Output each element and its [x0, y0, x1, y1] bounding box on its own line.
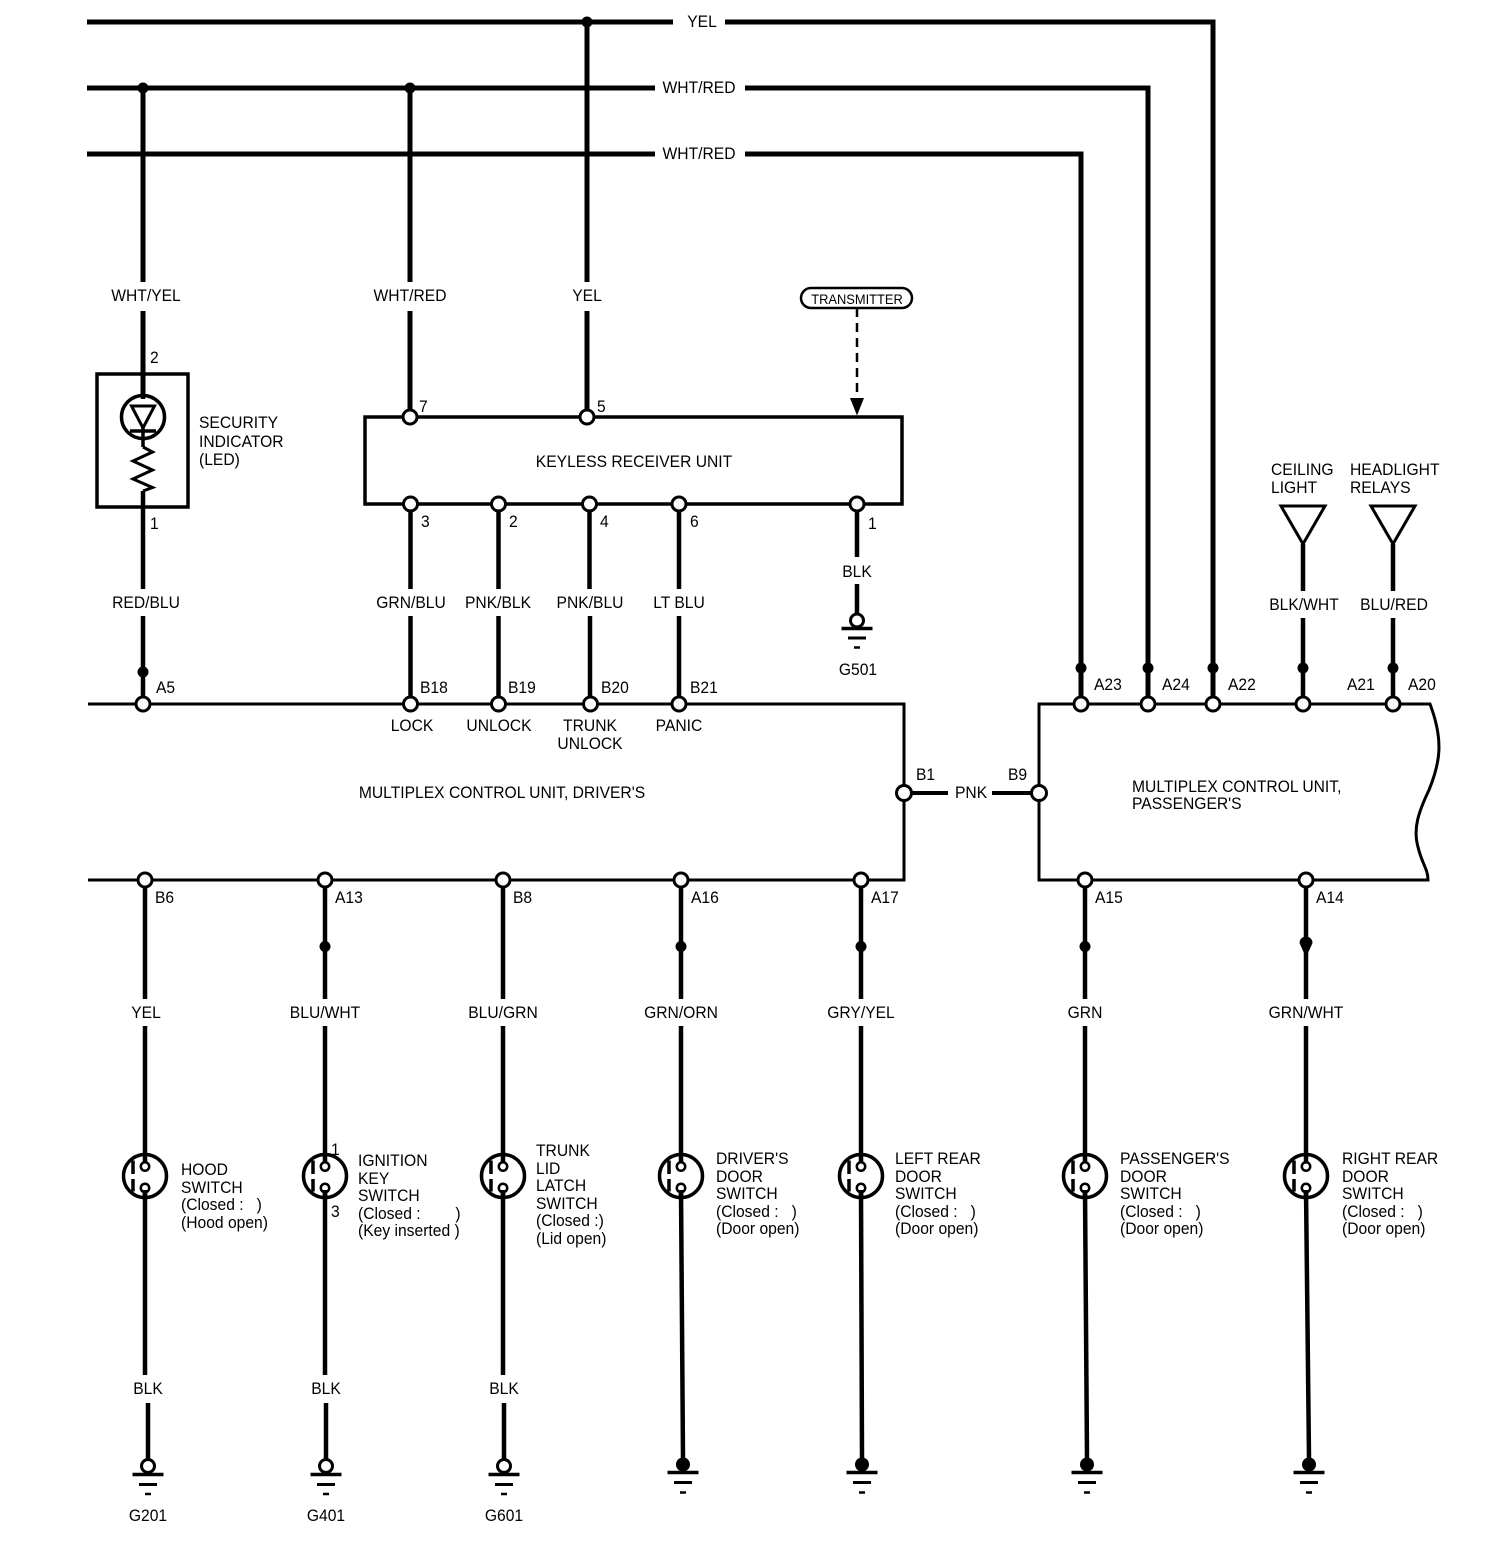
ceiling light antenna-triangle symbol — [1281, 506, 1325, 704]
pin label 1 (keyless grnd) — [868, 515, 877, 533]
ground symbol (filled dot) below A17 — [847, 1458, 878, 1493]
wire keyless pin2 to B19 — [496, 504, 501, 704]
terminal A17 — [854, 873, 868, 887]
switch symbol at column A16 — [660, 1153, 703, 1199]
function label TRUNK UNLOCK — [557, 717, 622, 752]
terminal label A21 — [1347, 676, 1375, 694]
wire label PNK — [955, 784, 987, 802]
wire A17 switch to ground — [861, 1190, 862, 1458]
junction dot on wire A16 — [676, 941, 687, 952]
label IGNITION KEY SWITCH — [358, 1152, 461, 1240]
switch symbol at column A15 — [1064, 1153, 1107, 1199]
ground label G401 — [307, 1507, 345, 1525]
wire label GRN/ORN — [644, 1004, 718, 1022]
label PASSENGER'S DOOR SWITCH — [1120, 1150, 1230, 1238]
security indicator (LED) component box — [97, 374, 188, 507]
junction dot on wire A13 — [320, 941, 331, 952]
pin label 1 (ignition) — [331, 1141, 340, 1159]
wire A15 from control unit to switch — [1083, 880, 1088, 1163]
terminal label B21 — [690, 679, 718, 697]
wire drop A23 from WHT/RED bus x=1081 — [1079, 152, 1084, 705]
wire label BLK (hood gnd) — [133, 1380, 163, 1398]
ground G501 — [842, 614, 873, 648]
wire label PNK/BLU — [557, 594, 624, 612]
junction dot at WHT/RED bus x=410 — [405, 83, 416, 94]
terminal B20 — [584, 697, 598, 711]
terminal A16 — [674, 873, 688, 887]
dashed RF link from transmitter — [850, 308, 864, 416]
terminal label B20 — [601, 679, 629, 697]
pin label 6 — [690, 513, 699, 531]
terminal pin 6 keyless bottom — [672, 497, 686, 511]
terminal label A20 — [1408, 676, 1436, 694]
wire B6 from control unit to switch — [143, 880, 148, 1163]
terminal label A17 — [871, 889, 899, 907]
wire A16 switch to ground — [681, 1190, 683, 1458]
wire WHT/RED drop to keyless pin7 x=410 — [408, 88, 413, 417]
terminal label A22 — [1228, 676, 1256, 694]
multiplex control unit driver's box U3 — [88, 704, 904, 880]
multiplex control unit passenger's box U4 (torn right edge) — [1039, 704, 1439, 880]
wire WHT/YEL drop to security indicator x=143 — [141, 88, 146, 397]
resistor inside security indicator — [133, 447, 153, 491]
junction dot on wire A15 — [1080, 941, 1091, 952]
terminal label A24 — [1162, 676, 1190, 694]
terminal A23 — [1074, 697, 1088, 711]
terminal pin 1 keyless bottom — [850, 497, 864, 511]
terminal pin 3 keyless bottom — [404, 497, 418, 511]
junction dot on A24 wire — [1143, 663, 1154, 674]
headlight relays antenna-triangle symbol — [1371, 506, 1415, 704]
junction-arrow dot on BLU/RED wire A20 — [1388, 663, 1399, 674]
wire B8 from control unit to switch — [501, 880, 506, 1163]
label TRANSMITTER — [811, 292, 903, 306]
label LEFT REAR DOOR SWITCH — [895, 1150, 981, 1238]
terminal label B19 — [508, 679, 536, 697]
terminal label B6 — [155, 889, 174, 907]
wire keyless pin4 to B20 — [587, 504, 592, 704]
switch symbol at column B8 — [482, 1153, 525, 1199]
terminal label A16 — [691, 889, 719, 907]
wire A14 switch to ground — [1306, 1190, 1309, 1458]
wire label GRN/WHT — [1269, 1004, 1344, 1022]
wire label BLK (ignition gnd) — [311, 1380, 341, 1398]
wire RED/BLU from LED to A5 x=143 — [141, 491, 146, 704]
wire label BLK (trunk gnd) — [489, 1380, 519, 1398]
ground symbol (filled dot) below A15 — [1072, 1458, 1103, 1493]
wire label GRN — [1068, 1004, 1103, 1022]
keyless receiver unit box U2 — [365, 417, 902, 504]
junction dot above A5 — [138, 667, 149, 678]
wire WHT/RED bus y=154 — [87, 152, 1079, 157]
wire PNK between B1 and B9 — [911, 791, 1032, 795]
terminal A22 — [1206, 697, 1220, 711]
label RIGHT REAR DOOR SWITCH — [1342, 1150, 1438, 1238]
pin label 3 — [421, 513, 430, 531]
wire YEL drop to keyless pin5 x=587 — [585, 22, 590, 417]
wire drop A24 from WHT/RED bus x=1148 — [1146, 86, 1151, 705]
wire label YEL (hood) — [131, 1004, 161, 1022]
ground label G601 — [485, 1507, 523, 1525]
wire A16 from control unit to switch — [679, 880, 684, 1163]
label CEILING LIGHT — [1271, 461, 1334, 496]
terminal A13 — [318, 873, 332, 887]
pin label 4 — [600, 513, 609, 531]
junction dot at WHT/RED bus x=143 — [138, 83, 149, 94]
ground symbol (open terminal) below A13 — [311, 1460, 342, 1495]
terminal label A14 — [1316, 889, 1344, 907]
terminal pin 2 keyless bottom — [492, 497, 506, 511]
terminal label A23 — [1094, 676, 1122, 694]
terminal A20 — [1386, 697, 1400, 711]
LED circle U-sec — [122, 374, 165, 447]
ground symbol (filled dot) below A16 — [668, 1458, 699, 1493]
label MULTIPLEX CONTROL UNIT, PASSENGER'S — [1132, 778, 1341, 812]
wire label BLU/RED — [1360, 596, 1428, 614]
switch symbol at column A14 — [1285, 1153, 1328, 1199]
wire label RED/BLU — [112, 594, 180, 612]
wire A13 switch to ground — [325, 1190, 326, 1459]
junction dot on A23 wire — [1076, 663, 1087, 674]
label HOOD SWITCH — [181, 1161, 268, 1231]
label KEYLESS RECEIVER UNIT — [536, 453, 732, 471]
junction dot on wire A17 — [856, 941, 867, 952]
pin label 7 — [419, 398, 428, 416]
ground symbol (filled dot) below A14 — [1294, 1458, 1325, 1493]
terminal B1 — [897, 786, 912, 801]
terminal B9 — [1032, 786, 1047, 801]
pin label 1 (LED bottom) — [150, 515, 159, 533]
wire A17 from control unit to switch — [859, 880, 864, 1163]
junction dot at YEL bus x=587 — [582, 17, 593, 28]
terminal A24 — [1141, 697, 1155, 711]
terminal B8 — [496, 873, 510, 887]
wire label GRY/YEL — [827, 1004, 895, 1022]
pin label 2 — [509, 513, 518, 531]
function label LOCK — [391, 717, 434, 735]
wire label BLK/WHT — [1269, 596, 1339, 614]
transmitter oval — [801, 288, 912, 308]
terminal pin 7 keyless — [403, 410, 417, 424]
ground symbol (open terminal) below B6 — [133, 1460, 164, 1495]
junction dot on A22 wire — [1208, 663, 1219, 674]
label HEADLIGHT RELAYS — [1350, 461, 1440, 496]
wire label PNK/BLK — [465, 594, 531, 612]
wire A13 from control unit to switch — [323, 880, 328, 1163]
terminal label A15 — [1095, 889, 1123, 907]
net label WHT/RED (bus 3) — [663, 145, 736, 163]
terminal label A13 — [335, 889, 363, 907]
junction-arrow dot on BLK/WHT wire A21 — [1298, 663, 1309, 674]
wire label BLU/GRN — [468, 1004, 538, 1022]
label SECURITY INDICATOR (LED) — [199, 414, 284, 470]
wire label GRN/BLU — [376, 594, 446, 612]
wire label BLK (G501) — [842, 563, 872, 581]
label TRUNK LID LATCH SWITCH — [536, 1142, 606, 1247]
net label WHT/RED (bus 2) — [663, 79, 736, 97]
terminal A15 — [1078, 873, 1092, 887]
ground label G201 — [129, 1507, 167, 1525]
terminal B6 — [138, 873, 152, 887]
wire label WHT/RED — [374, 287, 447, 305]
switch symbol at column A17 — [840, 1153, 883, 1199]
terminal label B8 — [513, 889, 532, 907]
wire WHT/RED bus y=88 — [87, 86, 1146, 91]
wire B8 switch to ground — [503, 1190, 504, 1459]
terminal A14 — [1299, 873, 1313, 887]
wire drop A22 from YEL bus x=1213 — [1211, 20, 1216, 705]
wire label LT BLU — [653, 594, 705, 612]
switch symbol at column A13 — [304, 1153, 347, 1199]
terminal label B9 — [1008, 766, 1027, 784]
terminal label B1 — [916, 766, 935, 784]
terminal label B18 — [420, 679, 448, 697]
terminal B19 — [492, 697, 506, 711]
terminal pin 4 keyless bottom — [583, 497, 597, 511]
terminal A21 — [1296, 697, 1310, 711]
wire label BLU/WHT — [290, 1004, 360, 1022]
wire label WHT/YEL — [111, 287, 181, 305]
ground label G501 — [839, 661, 877, 679]
wire B6 switch to ground — [145, 1190, 148, 1459]
wire label YEL — [572, 287, 602, 305]
wire keyless pin1 BLK to ground — [855, 504, 860, 614]
wire A15 switch to ground — [1085, 1190, 1087, 1458]
function label PANIC — [656, 717, 703, 735]
pin label 3 (ignition) — [331, 1203, 340, 1221]
wire YEL top bus y=22 — [87, 20, 1211, 25]
net label YEL (top bus) — [687, 13, 717, 31]
pin label 2 (LED top) — [150, 349, 159, 367]
function label UNLOCK — [466, 717, 531, 735]
switch symbol at column B6 — [124, 1153, 167, 1199]
terminal B21 — [672, 697, 686, 711]
label MULTIPLEX CONTROL UNIT, DRIVER'S — [359, 784, 645, 802]
label DRIVER'S DOOR SWITCH — [716, 1150, 799, 1238]
wire keyless pin6 to B21 — [677, 504, 682, 704]
terminal B18 — [404, 697, 418, 711]
ground symbol (open terminal) below B8 — [489, 1460, 520, 1495]
wire A14 from control unit to switch — [1304, 880, 1309, 1163]
pin label 5 — [597, 398, 606, 416]
terminal pin 5 keyless — [580, 410, 594, 424]
terminal A5 — [136, 697, 150, 711]
direction arrow on wire A14 — [1300, 937, 1313, 958]
wire keyless pin3 to B18 — [408, 504, 413, 704]
terminal label A5 — [156, 679, 175, 697]
